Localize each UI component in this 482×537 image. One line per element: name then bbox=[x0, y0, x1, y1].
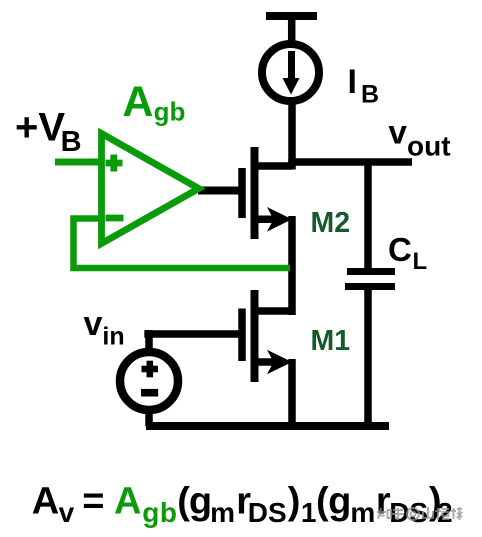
svg-text:v: v bbox=[84, 305, 103, 343]
svg-text:B: B bbox=[61, 126, 82, 158]
svg-text:L: L bbox=[413, 248, 428, 275]
svg-text:out: out bbox=[407, 131, 451, 162]
svg-text:1: 1 bbox=[301, 497, 317, 528]
svg-text:m: m bbox=[350, 497, 375, 528]
svg-text:B: B bbox=[361, 81, 379, 109]
svg-text:C: C bbox=[388, 231, 412, 268]
svg-text:(: ( bbox=[316, 481, 329, 523]
svg-text:g: g bbox=[328, 481, 351, 523]
svg-text:I: I bbox=[348, 63, 357, 101]
svg-text:DS: DS bbox=[248, 497, 287, 528]
svg-text:A: A bbox=[122, 78, 153, 126]
svg-text:v: v bbox=[389, 114, 408, 151]
svg-text:b: b bbox=[160, 497, 177, 528]
svg-text:gb: gb bbox=[154, 97, 186, 127]
svg-text:+V: +V bbox=[15, 106, 65, 150]
svg-text:A: A bbox=[114, 481, 141, 523]
svg-text:m: m bbox=[210, 497, 235, 528]
svg-text:v: v bbox=[59, 497, 75, 528]
svg-text:=: = bbox=[82, 481, 104, 523]
svg-text:g: g bbox=[189, 481, 212, 523]
svg-text:): ) bbox=[288, 481, 301, 523]
svg-text:M2: M2 bbox=[311, 207, 351, 239]
svg-text:in: in bbox=[102, 323, 124, 351]
svg-text:A: A bbox=[32, 481, 59, 523]
svg-text:g: g bbox=[142, 497, 159, 528]
svg-text:M1: M1 bbox=[311, 325, 351, 357]
